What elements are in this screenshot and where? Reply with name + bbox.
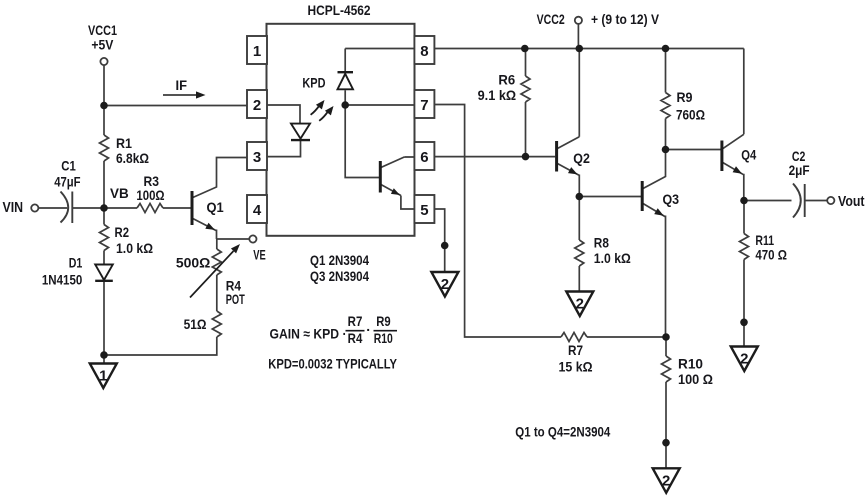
svg-text:+5V: +5V — [91, 38, 114, 53]
svg-text:POT: POT — [226, 292, 245, 307]
svg-text:100 Ω: 100 Ω — [678, 372, 713, 387]
svg-text:2: 2 — [662, 472, 670, 489]
svg-text:1: 1 — [99, 368, 107, 385]
svg-text:R6: R6 — [498, 72, 515, 87]
svg-text:VB: VB — [110, 186, 129, 201]
svg-text:VCC2: VCC2 — [537, 12, 565, 27]
svg-text:47μF: 47μF — [54, 175, 80, 190]
svg-text:R2: R2 — [115, 225, 130, 240]
svg-text:Q3: Q3 — [663, 192, 680, 207]
svg-text:KPD: KPD — [302, 76, 325, 91]
svg-text:1: 1 — [253, 43, 261, 60]
svg-text:8: 8 — [420, 43, 428, 60]
svg-text:4: 4 — [253, 202, 262, 219]
svg-text:1N4150: 1N4150 — [42, 273, 83, 288]
svg-text:R9: R9 — [376, 314, 391, 329]
svg-text:15 kΩ: 15 kΩ — [559, 360, 593, 375]
svg-text:KPD=0.0032 TYPICALLY: KPD=0.0032 TYPICALLY — [268, 356, 397, 371]
svg-text:R4: R4 — [348, 331, 363, 346]
svg-text:1.0 kΩ: 1.0 kΩ — [116, 241, 153, 256]
svg-text:Vout: Vout — [838, 193, 865, 210]
svg-text:HCPL-4562: HCPL-4562 — [308, 3, 371, 18]
svg-text:Q3 2N3904: Q3 2N3904 — [310, 269, 369, 284]
svg-text:·: · — [366, 323, 371, 338]
svg-text:Q2: Q2 — [573, 151, 590, 166]
svg-text:1.0 kΩ: 1.0 kΩ — [594, 251, 631, 266]
svg-text:2: 2 — [576, 296, 584, 313]
svg-text:R8: R8 — [594, 236, 609, 251]
svg-text:R11: R11 — [755, 233, 774, 248]
svg-text:7: 7 — [420, 97, 428, 114]
svg-text:760Ω: 760Ω — [676, 108, 705, 123]
svg-text:VCC1: VCC1 — [88, 23, 117, 38]
svg-text:2: 2 — [441, 276, 449, 293]
svg-text:470 Ω: 470 Ω — [755, 248, 787, 263]
svg-text:Q4: Q4 — [741, 148, 756, 163]
svg-text:VIN: VIN — [3, 199, 24, 216]
svg-text:Q1 2N3904: Q1 2N3904 — [310, 253, 369, 268]
svg-text:Q1 to Q4=2N3904: Q1 to Q4=2N3904 — [515, 425, 610, 440]
svg-text:5: 5 — [420, 202, 428, 219]
svg-text:9.1 kΩ: 9.1 kΩ — [478, 88, 516, 103]
svg-text:D1: D1 — [69, 255, 83, 270]
svg-text:VE: VE — [253, 247, 266, 262]
svg-text:R10: R10 — [678, 357, 703, 372]
svg-text:500Ω: 500Ω — [176, 256, 211, 271]
svg-text:+ (9 to 12) V: + (9 to 12) V — [591, 12, 660, 27]
svg-text:R7: R7 — [348, 314, 363, 329]
svg-text:R1: R1 — [116, 136, 132, 151]
svg-text:R3: R3 — [144, 174, 160, 189]
svg-text:IF: IF — [176, 78, 188, 93]
svg-text:2: 2 — [253, 97, 261, 114]
svg-text:3: 3 — [253, 149, 261, 166]
svg-text:2: 2 — [740, 351, 748, 368]
svg-text:6.8kΩ: 6.8kΩ — [116, 151, 149, 166]
svg-text:51Ω: 51Ω — [184, 317, 207, 332]
svg-text:Q1: Q1 — [207, 200, 225, 215]
svg-text:2μF: 2μF — [789, 163, 810, 178]
svg-text:C1: C1 — [61, 159, 76, 174]
svg-text:R9: R9 — [677, 90, 693, 105]
svg-text:GAIN ≈ KPD ·: GAIN ≈ KPD · — [270, 327, 347, 342]
svg-text:R7: R7 — [568, 343, 583, 358]
svg-text:6: 6 — [420, 149, 428, 166]
svg-text:R10: R10 — [374, 331, 393, 346]
svg-text:100Ω: 100Ω — [136, 188, 164, 203]
